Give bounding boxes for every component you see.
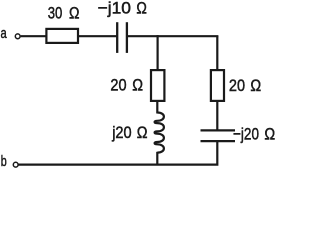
svg-text:Ω: Ω [132, 75, 143, 94]
capacitor C1 left plate [116, 22, 118, 53]
capacitor C1 value label -j10 ohm [98, 0, 147, 18]
resistor R3 value label 20 ohm [229, 76, 261, 95]
capacitor C2 value label -j20 ohm [233, 125, 275, 144]
resistor R2 body [151, 70, 164, 101]
svg-text:20: 20 [229, 76, 245, 95]
resistor R3 body [211, 70, 224, 101]
inductor L1 coil [155, 113, 164, 153]
svg-text:Ω: Ω [69, 4, 80, 23]
resistor R2 value label 20 ohm [110, 75, 143, 94]
svg-text:Ω: Ω [250, 76, 261, 95]
terminal label a [1, 25, 8, 42]
terminal label b [1, 153, 7, 170]
wire C1 to top-right corner [128, 35, 219, 37]
svg-text:Ω: Ω [137, 123, 148, 142]
inductor L1 value label j20 ohm [111, 123, 147, 142]
svg-text:j20: j20 [111, 123, 131, 142]
capacitor C2 bottom plate [201, 140, 236, 142]
svg-text:b: b [1, 153, 7, 170]
wire top node down to R2 [157, 35, 159, 70]
wire a to R1 [21, 35, 46, 37]
svg-text:−j10: −j10 [98, 0, 131, 18]
svg-text:−j20: −j20 [233, 125, 259, 144]
svg-text:20: 20 [110, 75, 126, 94]
capacitor C1 right plate [126, 22, 128, 53]
node b terminal circle [13, 162, 18, 167]
wire L1 to bottom wire [156, 152, 158, 165]
wire C2 to bottom wire corner [18, 142, 217, 165]
wire R2 to L1 [156, 100, 158, 114]
svg-text:a: a [1, 25, 8, 42]
svg-text:Ω: Ω [136, 0, 147, 18]
resistor R1 value label 30 ohm [48, 4, 80, 23]
wire R3 to C2 [216, 100, 218, 130]
svg-text:Ω: Ω [264, 125, 275, 144]
svg-text:30: 30 [48, 4, 63, 23]
node a terminal circle [15, 34, 20, 39]
capacitor C2 top plate [201, 129, 236, 131]
wire R1 to C1 [78, 35, 117, 37]
resistor R1 body [46, 29, 78, 43]
wire top corner down to R3 [216, 36, 218, 70]
